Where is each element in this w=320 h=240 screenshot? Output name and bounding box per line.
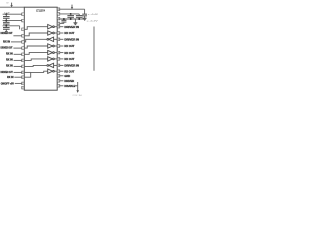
wire jog from left pin y60.4 to row y58.9 [24, 59, 47, 61]
driver E buffer [48, 57, 58, 61]
capacitor C2 [3, 21, 10, 26]
pin 12 (left) [22, 82, 25, 85]
svg-text:DRIVER: DRIVER [64, 80, 74, 83]
IC U1 package outline [24, 7, 57, 90]
pin 14 (right) [57, 85, 60, 88]
wire right row y71.2 [60, 70, 64, 72]
wire right row y52.6 [60, 52, 64, 54]
driver F buffer [48, 69, 58, 73]
wire left row y66.4 [14, 65, 22, 67]
svg-text:RX IN: RX IN [7, 76, 14, 79]
pin 13 (left) [22, 86, 25, 89]
svg-text:DRIVER IN: DRIVER IN [64, 65, 79, 68]
ground stub mid [74, 19, 76, 22]
junction V- rail right [78, 18, 80, 20]
svg-text:RX IN: RX IN [3, 40, 10, 43]
pin 11 (left) [22, 76, 25, 79]
pin 23 (right) [57, 32, 60, 35]
pin 9 (left) [22, 65, 25, 68]
svg-text:RX OUT: RX OUT [64, 70, 75, 73]
wire jog from left pin y29.3 to row y26.7 [24, 27, 47, 30]
pin 15 (right) [57, 80, 60, 83]
connector bus line (right) [93, 27, 95, 71]
wire right row y58.9 [60, 58, 64, 60]
pin 4 (left) [22, 35, 25, 38]
junction V- rail left [70, 18, 72, 20]
junction C2+ wire [70, 13, 72, 15]
wire left row y60.4 [14, 59, 22, 61]
capacitor C5 flying [67, 14, 74, 19]
V+ down-arrow [71, 5, 73, 10]
wire vertical into pin 3 [19, 26, 21, 30]
capacitor C3 [3, 26, 10, 31]
svg-text:5V: 5V [6, 2, 9, 4]
junction C7 top [63, 18, 65, 20]
svg-text:DRIVER OUT: DRIVER OUT [1, 47, 13, 50]
pin 5 (left) [22, 41, 25, 44]
pin 1 (left) [22, 13, 25, 16]
wire right row y80.8 [60, 80, 64, 82]
wire left row y72.4 [14, 71, 22, 73]
wire jog from left pin y41.9 to row y39.3 [24, 39, 47, 42]
pin 28 (right) [57, 8, 60, 11]
wire V- rail from pin 26 [60, 18, 85, 20]
driver D buffer [48, 50, 58, 54]
svg-text:GND: GND [64, 75, 70, 78]
wire jog from left pin y54.3 to row y52.6 [24, 53, 47, 55]
svg-text:LT1137 • TA01: LT1137 • TA01 [73, 94, 82, 97]
pin 25 (right) [57, 22, 60, 25]
wire left row y77.2 [14, 76, 21, 78]
disable down-arrow [76, 82, 79, 93]
ground below C4 [83, 17, 87, 20]
svg-text:RX IN: RX IN [6, 59, 13, 62]
ground below C3 [5, 31, 8, 33]
pin 8 (left) [22, 59, 25, 62]
pin 18 (right) [57, 64, 60, 67]
wire node C2- to pin 3 [3, 25, 20, 27]
wire C2+ from pin 27 [60, 13, 79, 15]
svg-text:RX OUT: RX OUT [64, 45, 75, 48]
ground mid symbol [73, 22, 77, 25]
pin 3 (left) [22, 28, 25, 31]
svg-text:LT1137A: LT1137A [36, 9, 45, 13]
svg-text:RX IN: RX IN [6, 53, 13, 56]
wire left row y54.3 [14, 53, 22, 55]
wire disable to arrow [75, 85, 78, 87]
wire right row y85.8 [60, 85, 64, 87]
wire left row y83.4 [15, 82, 22, 84]
svg-text:= +5.4V: = +5.4V [88, 14, 99, 16]
pin 7 (left) [22, 53, 25, 56]
pin 22 (right) [57, 38, 60, 41]
wire jog bottom driver row [24, 71, 47, 77]
pin 20 (right) [57, 51, 60, 54]
pin 24 (right) [57, 25, 60, 28]
driver A buffer [48, 25, 58, 29]
wire node C1- to pin 2 [3, 20, 22, 22]
wire right row y26.7 [60, 26, 64, 28]
pin 17 (right) [57, 70, 60, 73]
svg-text:RX OUT: RX OUT [64, 52, 75, 55]
wire right row y39.3 [60, 38, 64, 40]
junction on C1+ wire [5, 13, 7, 15]
capacitor C6 flying [76, 14, 83, 19]
wire V+ rail from pin 28 [60, 8, 85, 10]
svg-text:DRIVER OUT: DRIVER OUT [1, 71, 14, 74]
capacitor C4 to ground [82, 13, 87, 17]
svg-text:RX OUT: RX OUT [64, 58, 75, 61]
wire right row y46.0 [60, 45, 64, 47]
pin 6 (left) [22, 47, 25, 50]
junction on C2- wire [5, 25, 7, 27]
svg-text:RX OUT: RX OUT [64, 32, 75, 35]
junction on C1- wire [5, 20, 7, 22]
wire C3- from pin 25 [60, 22, 64, 24]
pin 21 (right) [57, 45, 60, 48]
pin 2 (left) [22, 19, 25, 22]
pin 10 (left) [22, 71, 25, 74]
wire right row y33.0 [60, 32, 64, 34]
svg-text:DRIVER OUT: DRIVER OUT [1, 32, 13, 35]
wire 5V supply rail [0, 6, 24, 8]
wire left row y41.9 [11, 41, 22, 43]
pin 19 (right) [57, 58, 60, 61]
wire jog from left pin y66.4 to row y65.4 [24, 65, 47, 66]
svg-text:ON/OFF +5V: ON/OFF +5V [1, 83, 14, 86]
wire left row y48.1 [13, 47, 21, 49]
pin 27 (right) [57, 13, 60, 16]
capacitor C7 small [61, 19, 66, 23]
svg-text:DISABLE: DISABLE [64, 85, 75, 88]
wire right row y65.4 [60, 64, 64, 66]
driver C buffer [48, 44, 58, 48]
wire node C1+ to pin 1 [3, 13, 22, 15]
receiver A buffer [47, 37, 57, 41]
wire left row y35.8 [13, 35, 21, 37]
pin 16 (right) [57, 75, 60, 78]
wire pin10 stub [24, 71, 30, 73]
wire right row y75.8 [60, 75, 64, 77]
svg-text:RX IN: RX IN [6, 65, 13, 68]
pin 26 (right) [57, 17, 60, 20]
wire V+ drop to C4 [84, 9, 86, 13]
wire jog from left pin y48.1 to row y46.0 [24, 46, 47, 48]
svg-text:= -5.2V: = -5.2V [87, 20, 99, 22]
wire jog from left pin y35.8 to row y33.0 [24, 33, 47, 36]
svg-text:DRIVER IN: DRIVER IN [64, 26, 79, 29]
receiver B buffer [47, 63, 57, 67]
driver B buffer [48, 31, 58, 35]
5V supply down-arrow [10, 3, 12, 8]
svg-text:DRIVER IN: DRIVER IN [64, 39, 79, 42]
capacitor C1 [3, 14, 10, 20]
